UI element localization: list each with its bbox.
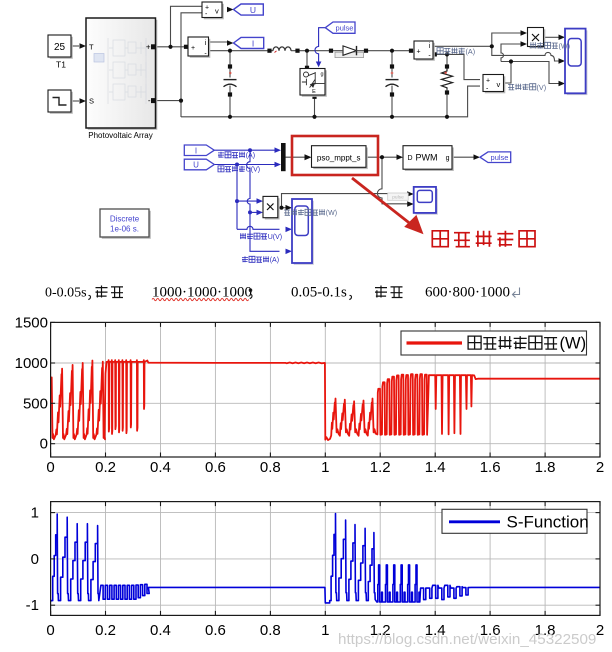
arrow product2 input2	[257, 210, 264, 216]
svg-text:Photovoltaic Array: Photovoltaic Array	[88, 131, 152, 140]
chart2 border	[51, 502, 600, 616]
svg-text:S: S	[89, 97, 94, 106]
wire v signal to scope input3	[501, 62, 559, 84]
svg-text:2: 2	[596, 622, 604, 639]
node Ji junction	[490, 44, 494, 48]
arrow into pso_mppt_s	[305, 154, 312, 160]
svg-text:(W): (W)	[559, 41, 571, 50]
wire IGBT emitter to rail	[314, 97, 316, 117]
arrow scope2 input1	[407, 191, 414, 197]
wire i signal up to product input1	[492, 33, 521, 46]
svg-text:T: T	[89, 43, 94, 52]
svg-text:1500: 1500	[15, 314, 48, 331]
svg-text:0.8: 0.8	[260, 459, 281, 476]
wire capacitor C1 branch	[229, 51, 231, 117]
arrow into I tag	[227, 40, 234, 46]
arrow mux input2	[275, 162, 282, 167]
wire power signal up to scope2 input1	[282, 194, 403, 208]
svg-text:0.2: 0.2	[95, 459, 116, 476]
svg-text:1.4: 1.4	[425, 459, 446, 476]
svg-text:v: v	[497, 80, 501, 89]
product2 block (PV power)	[265, 198, 280, 219]
chart2 ticks	[105, 611, 107, 616]
port IGBT collector	[305, 66, 309, 70]
wire product output to scope input1	[544, 36, 559, 38]
svg-text:-1: -1	[26, 597, 39, 614]
label 光伏电流(A) lower	[242, 256, 248, 262]
wire node D to load voltage +	[447, 54, 480, 79]
wire U branch to scope1 input2 with hop	[237, 226, 280, 229]
label 负载电压(V)	[508, 84, 514, 90]
port inductor right	[295, 49, 299, 53]
svg-text:(A): (A)	[466, 47, 476, 56]
wire voltage measurement - down to PV- net	[181, 13, 202, 101]
wire I branch down to product2 and scope1 input3	[247, 150, 280, 251]
goto tag U	[234, 4, 264, 15]
svg-text:pulse: pulse	[392, 194, 404, 200]
svg-text:2: 2	[596, 459, 604, 476]
PWM generator block	[405, 148, 454, 172]
wire I from-tag to mux input1	[214, 149, 275, 151]
node power junction	[279, 206, 283, 210]
svg-text:g: g	[446, 155, 450, 162]
svg-text:0: 0	[46, 459, 54, 476]
svg-text:+: +	[191, 45, 195, 52]
svg-text:0.6: 0.6	[205, 459, 226, 476]
svg-text:pulse: pulse	[491, 153, 509, 162]
node duty junction	[380, 155, 384, 159]
chart2 gridlines	[105, 502, 107, 616]
node A junction	[168, 45, 172, 49]
wire load voltage output up to node Jv	[504, 62, 512, 84]
port inductor left	[267, 49, 271, 53]
wire diode to node C and load current meas	[364, 50, 411, 52]
wire node A up to voltage measurement +	[171, 6, 203, 47]
annotation text 粒子群算法	[432, 231, 448, 247]
wire current i output to I tag	[209, 41, 228, 43]
svg-text:0.2: 0.2	[95, 622, 116, 639]
diode D1	[335, 52, 364, 57]
svg-text:0.4: 0.4	[150, 459, 171, 476]
red wavy underline	[152, 298, 249, 300]
chart1 border	[51, 322, 600, 457]
powergui Discrete block	[102, 211, 151, 239]
svg-text:+: +	[146, 42, 151, 51]
port current meas in	[184, 45, 188, 49]
wire v signal up to product input2 with hop	[501, 44, 521, 62]
goto tag I	[234, 37, 264, 48]
arrow IGBT gate blue	[316, 62, 322, 68]
wire pso_mppt_s output to PWM	[366, 156, 397, 158]
svg-text:U(V): U(V)	[246, 167, 260, 174]
wire PV+ to current measurement	[156, 46, 187, 48]
mux block	[281, 143, 286, 171]
label 光伏电压U(V) lower	[240, 233, 246, 239]
port R top	[445, 64, 449, 68]
node D junction	[445, 52, 449, 56]
wire U from-tag to mux input2	[214, 164, 275, 166]
svg-text:0: 0	[40, 436, 48, 453]
wire I branch to product2 input2	[250, 211, 257, 213]
port diode left	[329, 49, 333, 53]
wire pulse from-tag to IGBT gate with hop	[315, 28, 325, 62]
ghost pulse tag	[388, 193, 409, 200]
svg-text:+: +	[486, 78, 490, 85]
capacitor C1	[229, 72, 232, 75]
svg-text:U(V): U(V)	[268, 234, 282, 241]
arrow into U tag	[227, 7, 234, 12]
from tag pulse (top circuit)	[325, 22, 355, 33]
svg-text:1000: 1000	[15, 355, 48, 372]
port R bottom	[445, 90, 449, 94]
port C1 bottom	[228, 92, 232, 96]
node U branch junction	[235, 163, 239, 167]
chart1 red trace	[51, 360, 600, 440]
voltage measurement load block	[485, 76, 506, 93]
wire U branch down to product2 input1 and scope1 input2	[237, 165, 257, 230]
scope block (3 inputs)	[567, 30, 588, 95]
svg-text:0-0.05s: 0-0.05s	[45, 286, 87, 301]
svg-text:1.6: 1.6	[480, 459, 501, 476]
svg-text:0.8: 0.8	[260, 622, 281, 639]
scope1 block (PV, 3 inputs)	[294, 201, 314, 265]
光照 chars 1	[96, 286, 108, 298]
label 光伏输出功率(W)	[284, 210, 290, 215]
arrow into pulse goto tag	[474, 154, 481, 160]
arrow into PV S	[80, 98, 87, 104]
wire main node to inductor	[209, 50, 274, 52]
chart1 gridlines	[105, 322, 107, 457]
product block load power	[529, 29, 545, 48]
svg-text:1.2: 1.2	[370, 459, 391, 476]
port diode right	[364, 49, 368, 53]
wire duty signal down to scope2 input2 with hop	[377, 157, 407, 204]
svg-text:https://blog.csdn.net/weixin_4: https://blog.csdn.net/weixin_45322509	[338, 631, 596, 648]
svg-text:0.05-0.1s: 0.05-0.1s	[291, 285, 347, 301]
step block	[50, 92, 73, 114]
svg-text:I: I	[195, 146, 197, 155]
port C1 top	[228, 64, 232, 68]
svg-text:+: +	[417, 49, 421, 56]
svg-text:-: -	[148, 96, 151, 105]
voltage measurement U block	[204, 4, 224, 19]
from tag I	[184, 145, 214, 156]
goto tag pulse (after PWM)	[480, 152, 511, 163]
rail junction 3	[390, 115, 394, 119]
chart1 ticks	[105, 453, 107, 458]
label 光伏电压U(V) top	[218, 166, 224, 172]
arrow mux input1	[275, 147, 282, 153]
svg-text:1: 1	[321, 459, 329, 476]
wire load current i output to node Ji	[433, 45, 492, 47]
inductor L1	[273, 47, 291, 51]
arrow into product input1	[521, 30, 528, 36]
IGBT block Q1	[302, 70, 327, 97]
svg-text:g: g	[321, 72, 324, 78]
svg-text:0: 0	[31, 551, 39, 568]
port C2 bottom	[390, 92, 394, 96]
arrow scope input1	[559, 35, 566, 41]
arrow scope1 input3	[286, 249, 293, 255]
svg-text:0.6: 0.6	[205, 622, 226, 639]
label 光伏电流(A) top	[218, 152, 224, 158]
node U lower junction	[235, 199, 239, 203]
red highlight rectangle	[292, 136, 378, 175]
scope2 block (duty/power)	[416, 189, 438, 215]
svg-text:T1: T1	[56, 60, 66, 70]
faint blue icon inside PV	[94, 54, 104, 63]
svg-text:v: v	[215, 7, 219, 16]
wire inductor to diode	[291, 50, 335, 52]
svg-text:(A): (A)	[246, 153, 255, 160]
svg-text:U: U	[250, 5, 256, 15]
arrow scope input2	[559, 58, 566, 64]
node Jv junction	[509, 59, 513, 63]
svg-text:(W): (W)	[326, 210, 337, 217]
node B junction	[305, 49, 309, 53]
arrow scope1 input1	[286, 205, 293, 211]
arrow scope2 input2	[407, 201, 414, 207]
svg-text:1: 1	[321, 622, 329, 639]
port IGBT emitter	[312, 95, 316, 99]
wire PV- to bottom rail	[156, 101, 182, 117]
svg-text:I: I	[252, 39, 254, 49]
svg-text:Discrete: Discrete	[110, 215, 140, 224]
svg-text:1: 1	[31, 505, 39, 522]
wire i signal to scope input2 with hop	[492, 46, 559, 61]
node C1 junction	[228, 49, 232, 53]
PV output ports	[151, 44, 156, 49]
svg-text:(V): (V)	[537, 83, 547, 92]
wire load current - to resistor branch	[435, 54, 447, 116]
current measurement I block	[190, 39, 211, 58]
svg-text:E: E	[312, 89, 316, 95]
svg-text:0: 0	[46, 622, 54, 639]
svg-text:S-Function: S-Function	[507, 513, 589, 532]
arrow into PWM	[397, 154, 404, 160]
svg-text:0.4: 0.4	[150, 622, 171, 639]
port C2 top	[390, 64, 394, 68]
svg-text:600·800·1000: 600·800·1000	[425, 285, 510, 301]
光照 chars 2	[375, 286, 387, 298]
wire PWM output to pulse goto tag	[452, 156, 474, 158]
chart2 blue trace	[51, 514, 600, 603]
port load current in	[409, 49, 413, 53]
node C junction	[390, 49, 394, 53]
arrow scope1 input2	[286, 227, 293, 233]
current measurement load block	[416, 43, 435, 61]
svg-text:25: 25	[54, 42, 66, 53]
label 负载电流(A)	[437, 48, 443, 54]
wire const T1 to PV input T	[71, 45, 79, 47]
svg-text:500: 500	[23, 395, 48, 412]
wire step to PV input S	[71, 100, 79, 102]
label 负载功率(W)	[530, 42, 536, 48]
svg-text:pulse: pulse	[336, 24, 354, 33]
constant block 25 (T1)	[50, 37, 73, 59]
node I branch junction	[248, 148, 252, 152]
wire product2 output to scope1 input1	[278, 207, 286, 209]
arrow scope input3	[559, 81, 566, 86]
paragraph return mark	[513, 288, 520, 298]
resistor R load	[442, 69, 453, 90]
svg-text:PWM: PWM	[416, 153, 438, 163]
rail junction 2	[312, 115, 316, 119]
svg-text:pso_mppt_s: pso_mppt_s	[317, 153, 361, 162]
wire node B down to IGBT collector	[306, 51, 308, 66]
svg-text:U: U	[193, 161, 199, 170]
arrow into product input2	[521, 41, 528, 47]
svg-text:(W): (W)	[560, 335, 587, 353]
node PV- junction	[179, 99, 183, 103]
svg-text:1e-06 s.: 1e-06 s.	[110, 225, 139, 234]
svg-text:D: D	[408, 155, 413, 162]
rail junction 4	[445, 115, 449, 119]
chart2 legend	[442, 509, 587, 533]
node I lower junction	[248, 210, 252, 214]
wire capacitor C2 branch	[391, 51, 393, 117]
arrow product2 input1	[257, 198, 264, 204]
bottom rail wire	[181, 86, 480, 117]
arrow into PV T	[80, 43, 87, 49]
from tag U	[184, 159, 214, 170]
pso_mppt_s block	[313, 148, 368, 170]
chart1 legend	[401, 331, 587, 355]
svg-text:(A): (A)	[270, 257, 279, 264]
port load current minus	[433, 52, 437, 56]
capacitor C2	[391, 72, 394, 75]
rail junction 1	[228, 115, 232, 119]
svg-text:1.8: 1.8	[535, 459, 556, 476]
red annotation arrow	[352, 178, 410, 224]
wire mux to pso_mppt_s	[286, 156, 306, 158]
